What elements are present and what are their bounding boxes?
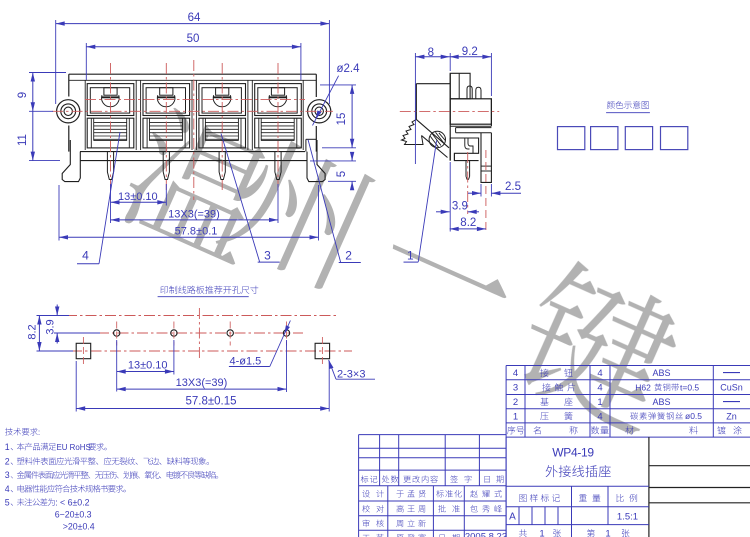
center line: pcb vertical symmetry [198,308,200,361]
pcb slot right (3x3) [315,337,330,365]
svg-text:1: 1 [5,442,10,452]
side view: pcb standoff leg [481,133,491,183]
dimension 57.8±0.1 [59,185,319,241]
svg-text:3.9: 3.9 [452,200,468,212]
dimension 8 (side depth) [415,47,449,164]
svg-text:4: 4 [597,368,602,379]
side view: right edge vertical [490,99,492,126]
svg-text:2.5: 2.5 [505,181,521,193]
center line: pcb top reference [66,315,336,317]
dimension 15 (right height) [320,85,356,148]
dimension Ø2.4 ear hole leader [313,63,361,125]
svg-text:3.9: 3.9 [45,319,57,334]
balloon 4 with leader to cell1 contact [77,132,120,264]
dimension 9.2 [450,46,492,96]
pcb pin hole 4 (Ø1.5) [283,322,289,346]
svg-text:WP4-19: WP4-19 [552,446,594,460]
dimension 9 (left height) [17,73,66,112]
front view: terminal cell 4 button window [255,84,302,116]
note line 3: metal surface requirement [5,470,218,480]
front view: terminal cell 3 spring contact window [199,118,246,148]
svg-text:2: 2 [345,249,352,263]
dimension 64 (overall width) [56,12,330,104]
front view: connector body outline [69,74,316,160]
svg-text:13±0.10: 13±0.10 [118,191,158,203]
parts row 2: 基座 ABS [513,397,740,408]
side view: coil spring in claw [429,131,445,147]
note line 4: electrical requirement [5,484,126,494]
svg-text:1: 1 [407,249,414,263]
svg-text:4: 4 [513,368,518,379]
svg-text:9: 9 [17,92,29,98]
dimension 3.9 (pcb) [45,305,101,344]
svg-text:3: 3 [264,249,271,263]
sig row: 设计 于孟贤 标准化 赵耀式 [362,490,501,497]
svg-text:4: 4 [82,249,89,263]
svg-text:ø2.4: ø2.4 [336,63,360,75]
svg-text:2: 2 [5,456,10,466]
pcb slot left (3x3) [76,337,91,365]
center line: horizontal through ear holes [52,110,333,112]
front view: right mounting ear with hole [308,100,331,123]
balloon 3 with leader to cell3 contact [221,134,280,263]
balloon 2 with leader to body wall [308,140,361,263]
side view: mounting face vertical [449,73,451,160]
watermark character 键 [505,254,692,440]
center line: vertical body symmetry [193,60,195,200]
side view: wire clamp hooks [467,86,481,99]
front view: solder pin 2 [163,152,169,180]
svg-text:4: 4 [597,411,602,422]
center line: side view leg axis [485,150,487,232]
svg-text:Zn: Zn [726,411,737,421]
front view: left snap foot [62,140,80,182]
svg-text:1: 1 [539,528,544,537]
svg-text:13±0.10: 13±0.10 [128,360,168,372]
color chart swatch box 1 [558,127,585,150]
dimension 5 (foot height) [310,152,356,190]
side view: separation slot lines [450,126,491,133]
center line: vertical through cell/pin 4 [277,63,279,190]
svg-text:13X3(=39): 13X3(=39) [168,209,220,221]
dimension 13X3(=39) (pcb) [117,340,287,392]
svg-text:11: 11 [17,134,29,146]
sig row: 标记 处数 更改内容 签字 日期 [361,475,504,483]
note: 技术要求 heading [5,428,13,436]
side view: mid body block [450,99,491,124]
note line 1: EU RoHS requirement [5,442,107,452]
note line 5: tolerance < 6±0.2 [5,497,90,507]
svg-text:2005.8.23: 2005.8.23 [465,531,507,537]
front view: terminal cell 1 button window [87,84,134,116]
svg-text:5: 5 [5,497,10,507]
svg-text:9.2: 9.2 [462,46,478,58]
center line: side view pin axis [467,152,469,214]
svg-text:57.8±0.15: 57.8±0.15 [185,395,236,407]
watermark character 温 [114,103,283,270]
dimension 13X3(=39) [111,184,279,223]
row 图样标记 重量 比例 [519,486,637,537]
svg-text::: : [55,497,57,507]
title block right format cells (black) [649,466,750,503]
svg-text:8.2: 8.2 [27,324,39,339]
side view: housing left block [416,84,450,158]
svg-text:3: 3 [5,470,10,480]
center line: horizontal through cell circles [85,98,305,100]
svg-text:57.8±0.1: 57.8±0.1 [175,226,218,238]
svg-text:ABS: ABS [652,368,670,378]
parts header row: 序号 名称 数量 材料 镀涂 [507,426,741,434]
front view: right snap foot [307,140,325,182]
front view: left mounting ear with hole [57,100,80,123]
leader 2-3x3 to right slot [329,360,375,381]
color chart swatch box 2 [591,127,618,150]
center line: pcb slot row axis [71,350,352,352]
parts row 1: 压簧 碳素弹簧钢丝Φ0.5 Zn [513,411,737,422]
svg-text:ABS: ABS [652,397,670,407]
side view: lower contact block [450,138,478,161]
dimension 2.5 (leg width) [468,181,521,195]
front view: terminal cell 2 spring contact window [143,118,190,148]
svg-text:8.2: 8.2 [460,217,476,229]
side view: release claw serrated lever [402,119,424,144]
svg-text:1: 1 [605,528,610,537]
svg-text:3: 3 [513,383,518,394]
pcb pin hole 2 (Ø1.5) [171,322,177,346]
svg-text:64: 64 [188,12,201,24]
svg-text:< 6±0.2: < 6±0.2 [60,497,90,507]
svg-text:15: 15 [336,113,348,126]
sheet count row: 共 1 张 第 1 张 [519,528,630,537]
watermark character 州 [214,129,377,293]
extension lines for bottom side dims [450,162,491,232]
svg-text:4: 4 [597,383,602,394]
dimension 50 (window span) [86,33,301,80]
svg-text:H62: H62 [635,382,651,392]
parts row 4: 接钮 ABS [513,368,740,379]
front view: terminal cell 3 button window [199,84,246,116]
watermark character 一 [392,234,512,299]
svg-text:EU RoHS: EU RoHS [57,443,91,452]
svg-text:6−20±0.3: 6−20±0.3 [55,509,92,519]
center line: vertical through cell/pin 2 [165,63,167,190]
pcb pin hole 3 (Ø1.5) [227,322,233,346]
sig row: 审核 周立新 [363,520,426,528]
pcb pin hole 1 (Ø1.5) [114,322,120,346]
svg-text:CuSn: CuSn [720,383,743,393]
parts row 3: 接触片 H62黄铜带t=0.5 CuSn [513,382,743,393]
svg-text:ø0.5: ø0.5 [685,411,702,421]
parts list table grid [506,366,750,438]
center line: vertical through cell/pin 3 [221,63,223,190]
sig row: 工艺 原登富 日期 2005.8.23 [362,531,507,537]
balloon 1 with leader to coil spring [404,141,437,263]
center line: side view horizontal axis [400,111,499,113]
sig row: 校对 高王周 批准 包秀峰 [362,505,502,513]
svg-text:4-ø1.5: 4-ø1.5 [230,355,262,367]
svg-text:50: 50 [187,33,200,45]
dimension 13±0.10 (pcb) [117,340,174,392]
front view: solder pin 3 [219,152,225,180]
svg-text:>20±0.4: >20±0.4 [63,521,95,531]
note line 2: plastic surface requirement [5,456,209,466]
front view: solder pin 4 [275,152,281,180]
svg-text:2: 2 [513,397,518,408]
svg-text:A: A [509,512,516,523]
leader 4-Ø1.5 to hole 4 [229,321,291,368]
svg-text:4: 4 [5,484,10,494]
center line: pcb hole row axis [98,332,303,334]
dimension 11 (left lower height) [17,111,60,160]
color chart swatch box 4 [661,127,688,150]
signature table grid [359,435,507,537]
front view: partition walls between cells [136,80,252,150]
side view: top terminal tower [450,73,470,99]
title block: main frame lines [506,437,649,537]
dimension 8.2 (pcb) [27,316,74,352]
front view: terminal cell 2 button window [143,84,190,116]
svg-text:5: 5 [336,171,348,177]
color chart swatch box 3 [625,127,652,150]
front view: terminal cell 1 spring contact window [87,118,134,148]
side view: solder pin [466,161,470,180]
label: color reference chart title (颜色示意图) [606,101,650,113]
svg-text:1.5:1: 1.5:1 [617,511,638,522]
svg-text:13X3(=39): 13X3(=39) [176,377,228,389]
svg-text:1: 1 [597,397,602,408]
title text: 外接线插座 [546,465,558,477]
dimension 13±0.10 pin pitch [111,184,167,223]
side view: bent contact tail [465,138,473,153]
svg-text:1: 1 [513,411,518,422]
front view: solder pin 1 [107,152,113,180]
front view: terminal cell 4 spring contact window [255,118,302,148]
svg-text:t=0.5: t=0.5 [680,382,699,392]
front view: right wall notch [306,139,316,151]
center line: vertical through cell/pin 1 [110,63,112,190]
revision mark cells row with A and 1.5:1 [509,507,638,525]
dimension 8.2 [450,217,486,231]
label: PCB drilling title (印制线路板推荐开孔尺寸) [158,286,259,297]
dimension 57.8±0.15 (pcb) [76,361,329,412]
dimension 3.9 [436,200,479,214]
